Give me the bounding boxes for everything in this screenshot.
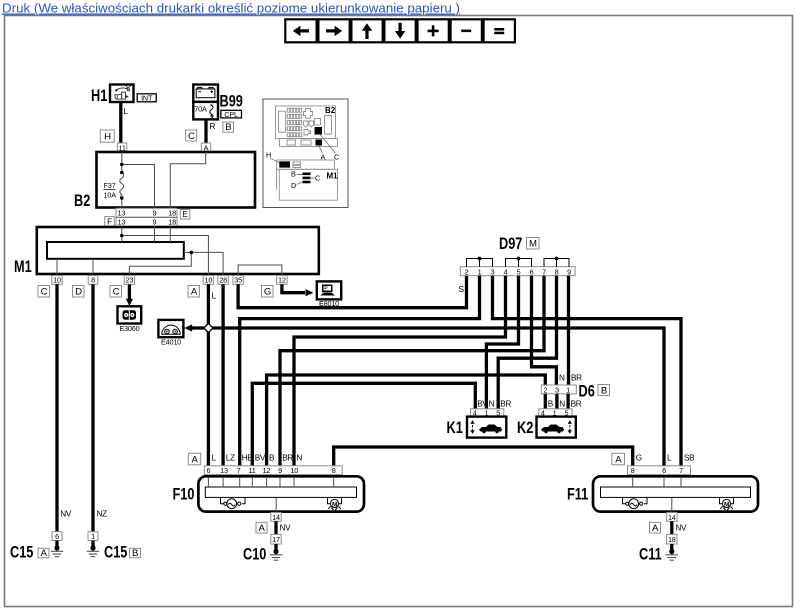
junction dot on M1 internal wire xyxy=(190,251,194,255)
inset fuse grid xyxy=(287,108,301,136)
M1 pin 8 (D) xyxy=(88,276,98,285)
svg-text:S: S xyxy=(459,285,465,294)
leader lines to A and C labels xyxy=(319,135,336,154)
connector D label xyxy=(73,286,85,298)
node: diamond junction on wire L xyxy=(204,323,213,332)
svg-text:F37: F37 xyxy=(104,181,116,190)
svg-text:BV: BV xyxy=(477,400,488,409)
svg-text:M: M xyxy=(332,501,338,508)
svg-text:K1: K1 xyxy=(447,418,463,437)
svg-text:C11: C11 xyxy=(639,545,662,564)
bridge 4-5-6 inside D97 xyxy=(506,259,532,267)
connector A label xyxy=(38,548,49,558)
svg-text:9: 9 xyxy=(153,209,157,218)
svg-text:8: 8 xyxy=(555,267,559,276)
ground C15 B xyxy=(90,545,95,550)
wire D97 pin1 to F10 pin 7 xyxy=(240,276,480,466)
svg-text:6: 6 xyxy=(530,267,534,276)
lamp symbol in F10 xyxy=(221,497,246,508)
svg-text:18: 18 xyxy=(168,218,176,227)
wire D97 pin8 to K1 pin 5 xyxy=(498,276,556,409)
svg-text:14: 14 xyxy=(668,513,676,522)
svg-text:8: 8 xyxy=(91,276,95,285)
svg-text:3: 3 xyxy=(491,267,495,276)
fuse box B2 xyxy=(97,152,256,208)
pin 18 xyxy=(667,534,677,544)
inset module M1 body xyxy=(279,169,337,200)
svg-text:R: R xyxy=(210,122,216,131)
svg-text:8: 8 xyxy=(332,466,336,475)
wire F10 pin8 to F11 pin 8 xyxy=(334,447,633,466)
battery B99 xyxy=(193,85,218,102)
svg-text:G: G xyxy=(264,287,271,298)
svg-text:C: C xyxy=(188,131,195,142)
svg-text:8: 8 xyxy=(631,466,635,475)
svg-text:B: B xyxy=(225,122,231,133)
location inset box xyxy=(263,99,348,208)
inner module rectangle xyxy=(47,242,184,259)
F10 pin row xyxy=(204,466,342,475)
connector A label xyxy=(256,522,267,533)
M1 pin 10 (A) xyxy=(203,276,213,285)
wire: M1 internal to pin 10A xyxy=(122,236,209,276)
svg-text:10A: 10A xyxy=(104,191,117,200)
pin 11 of B2 xyxy=(117,143,126,152)
svg-text:SB: SB xyxy=(684,454,695,463)
wire D97 pin9 to D6 pin 1 xyxy=(567,276,570,385)
svg-text:NV: NV xyxy=(675,524,687,533)
M1 pin 10 (C) xyxy=(52,276,62,285)
svg-text:2: 2 xyxy=(465,267,469,276)
pin A of B2 xyxy=(201,143,210,152)
svg-text:M: M xyxy=(724,501,730,508)
connector F label xyxy=(105,217,115,227)
connector C label xyxy=(110,286,122,298)
wire D97 pin5 to K1 pin 1 xyxy=(486,276,518,409)
svg-text:1: 1 xyxy=(566,386,570,395)
ground C15 A xyxy=(54,545,59,550)
wire M1 pin12 to E8010 xyxy=(282,284,305,292)
svg-text:M1: M1 xyxy=(327,172,339,181)
svg-text:B: B xyxy=(291,170,296,179)
svg-text:13: 13 xyxy=(118,218,126,227)
svg-text:10: 10 xyxy=(53,276,61,285)
inset module M1 top bar xyxy=(277,160,335,169)
svg-text:14: 14 xyxy=(272,513,280,522)
connector rows E/F between B2 and M1 xyxy=(116,208,177,226)
wire BR: D6 pin 1 to K2 pin 5 xyxy=(566,394,569,409)
wire N: D6 pin 3 to K2 pin 1 xyxy=(555,394,558,409)
F10 pin 14 xyxy=(271,513,281,522)
svg-text:N: N xyxy=(559,400,565,409)
INT box xyxy=(137,94,156,102)
svg-text:E3060: E3060 xyxy=(119,324,139,333)
svg-text:1: 1 xyxy=(478,267,482,276)
svg-text:INT: INT xyxy=(141,94,153,103)
wire NZ: M1 pin8D to ground C15 B xyxy=(91,284,94,531)
svg-text:C: C xyxy=(113,287,120,298)
svg-text:BR: BR xyxy=(282,454,293,463)
M1 pin 28 xyxy=(218,276,228,285)
svg-text:B2: B2 xyxy=(74,191,90,210)
svg-text:9: 9 xyxy=(567,267,571,276)
svg-text:G: G xyxy=(636,454,642,463)
svg-text:C15: C15 xyxy=(104,543,127,562)
wire: B2 pin 18 into M1 xyxy=(169,227,171,242)
svg-text:BR: BR xyxy=(571,400,582,409)
pin stubs inside F10 xyxy=(208,478,333,487)
wire B: D6 pin 2 to K2 pin 4 xyxy=(544,394,547,409)
svg-text:C15: C15 xyxy=(10,543,33,562)
svg-text:LZ: LZ xyxy=(226,454,235,463)
wire F10 pin12 to D6 pin 2 xyxy=(267,375,546,466)
connector B label xyxy=(223,122,234,132)
svg-text:D6: D6 xyxy=(579,382,595,401)
svg-text:D: D xyxy=(75,287,82,298)
inset connector bars B C D xyxy=(303,173,311,176)
svg-text:N: N xyxy=(559,374,565,383)
svg-text:H1: H1 xyxy=(91,86,107,105)
svg-text:7: 7 xyxy=(679,466,683,475)
M1 pin 12 xyxy=(277,276,287,285)
svg-text:6: 6 xyxy=(662,466,666,475)
rear lamps module F11 xyxy=(593,476,758,511)
svg-text:N: N xyxy=(296,454,302,463)
diagnostic socket E8010 xyxy=(317,281,341,299)
svg-text:17: 17 xyxy=(272,535,280,544)
svg-text:F: F xyxy=(107,217,112,226)
F11 pin 14 xyxy=(667,513,677,522)
CPL box xyxy=(221,110,242,118)
wire: M1 internal to pin 8D xyxy=(92,259,94,276)
lamp symbol in F11 xyxy=(623,497,648,508)
wire L continues right to F11 pin 6 xyxy=(213,328,664,466)
connector M label xyxy=(527,238,540,250)
pin 1 xyxy=(88,532,98,541)
junction box E3060 xyxy=(118,306,142,323)
svg-text:9: 9 xyxy=(153,218,157,227)
wire: B2 pin 13 into M1 xyxy=(121,227,123,242)
wire S: M1 pin35 right to D97 pin 2 xyxy=(238,276,466,308)
arrow from node to E4010 xyxy=(188,326,204,329)
ground C11 xyxy=(669,549,674,554)
svg-text:35: 35 xyxy=(234,276,242,285)
svg-text:7: 7 xyxy=(237,466,241,475)
svg-text:3: 3 xyxy=(555,386,559,395)
svg-text:13: 13 xyxy=(118,209,126,218)
svg-text:NV: NV xyxy=(60,510,72,519)
connector E label xyxy=(180,210,190,220)
connector A label xyxy=(612,453,625,465)
bridge 2-1-3 inside D97 xyxy=(467,259,493,267)
svg-text:28: 28 xyxy=(219,276,227,285)
wire: M1 internal to pin 28 xyxy=(184,252,223,275)
svg-text:C10: C10 xyxy=(243,545,266,564)
M1 pin 23 xyxy=(124,276,134,285)
pin 6 xyxy=(52,532,62,541)
body computer M1 xyxy=(37,227,319,274)
connector B label xyxy=(130,548,141,558)
svg-text:E: E xyxy=(182,210,188,219)
svg-text:C: C xyxy=(41,287,48,298)
heater plug H1 xyxy=(110,85,134,103)
ground C10 xyxy=(273,549,278,554)
wire: M1 internal bridge pin 35 to pin 12 xyxy=(238,265,282,276)
wire D97 pin7 to F10 pin 9 xyxy=(280,276,544,466)
wire D97 pin6 to D6 pin 3 xyxy=(532,276,557,385)
svg-text:M: M xyxy=(529,239,537,250)
svg-text:1: 1 xyxy=(91,532,95,541)
connector B label xyxy=(598,385,610,396)
svg-text:Druk (We właściwościach drukar: Druk (We właściwościach drukarki określi… xyxy=(2,1,460,16)
wire: M1 internal to pin 10C xyxy=(56,259,58,276)
svg-text:E4010: E4010 xyxy=(161,338,181,347)
connector C label xyxy=(38,286,50,298)
connector A label xyxy=(188,286,200,298)
bridge 7-8-9 inside D97 xyxy=(544,259,569,267)
wire D97 pin4 to F10 pin 10 xyxy=(294,276,506,466)
wire R from B99 to B2 pin A xyxy=(204,119,207,143)
svg-text:BR: BR xyxy=(571,374,582,383)
connector G label xyxy=(262,286,274,298)
connector A label xyxy=(650,522,661,533)
svg-text:H: H xyxy=(104,132,111,143)
svg-text:B99: B99 xyxy=(220,92,243,111)
wire F10 pin11 to K1 pin 4 xyxy=(252,383,475,466)
toolbar buttons xyxy=(285,19,515,42)
svg-text:F10: F10 xyxy=(173,485,195,504)
svg-text:N: N xyxy=(489,400,495,409)
wire: M1 internal to pin 23 xyxy=(129,252,191,275)
inset connector A (black) xyxy=(316,140,323,146)
svg-text:BV: BV xyxy=(255,454,266,463)
front lamps module F10 xyxy=(198,476,364,511)
svg-text:11: 11 xyxy=(248,466,255,475)
F11 pin row xyxy=(628,466,691,475)
inner bar F10 xyxy=(205,487,356,497)
pin 17 xyxy=(271,534,281,544)
svg-text:B2: B2 xyxy=(325,106,336,115)
svg-text:BR: BR xyxy=(500,400,511,409)
internal wire from pin 11 with fuse F37 xyxy=(120,152,206,208)
svg-text:NV: NV xyxy=(280,524,292,533)
svg-text:4: 4 xyxy=(504,267,508,276)
motor symbol in F10 xyxy=(328,497,342,510)
svg-text:10: 10 xyxy=(205,276,213,285)
inset connector C (black) xyxy=(315,127,323,135)
wire: B2 pin 9 into M1 xyxy=(154,227,156,242)
wire NV: M1 pin10C to ground C15 A xyxy=(55,284,58,531)
connector H label xyxy=(100,130,114,142)
svg-text:6: 6 xyxy=(55,532,59,541)
svg-text:B: B xyxy=(132,548,138,559)
wire NV to ground C10 xyxy=(274,521,277,534)
svg-text:F11: F11 xyxy=(567,485,588,504)
wire NV to ground C11 xyxy=(670,521,673,534)
wire L from H1 to B2 pin 11 xyxy=(119,102,122,143)
svg-text:13: 13 xyxy=(220,466,228,475)
motor symbol in F11 xyxy=(720,497,734,510)
svg-text:K2: K2 xyxy=(517,418,533,437)
svg-text:18: 18 xyxy=(168,209,176,218)
svg-text:B: B xyxy=(548,400,554,409)
svg-text:D: D xyxy=(291,181,296,190)
pin stubs inside F11 xyxy=(633,478,681,487)
inset fuse box B2 outline xyxy=(276,106,338,147)
svg-text:18: 18 xyxy=(668,535,676,544)
wire M1 pin28 down to F10 pin 13 xyxy=(221,284,224,466)
svg-text:B: B xyxy=(601,385,607,396)
svg-text:D97: D97 xyxy=(499,234,522,253)
svg-text:9: 9 xyxy=(278,466,282,475)
inner bar F11 xyxy=(601,487,751,497)
internal wire to pin 14 xyxy=(671,497,673,512)
wire M1 pin23 to E3060 xyxy=(128,284,131,301)
svg-text:NZ: NZ xyxy=(97,510,108,519)
svg-text:5: 5 xyxy=(517,267,521,276)
wire L: M1 pin10A down to F10 pin 6 xyxy=(207,284,210,466)
M1 pin 35 xyxy=(233,276,243,285)
svg-text:6: 6 xyxy=(206,466,210,475)
wire D97 pin3 to F11 pin 7 xyxy=(493,276,682,466)
svg-text:2: 2 xyxy=(543,386,547,395)
svg-text:CPL: CPL xyxy=(224,110,238,119)
svg-text:C: C xyxy=(315,174,320,183)
internal wire to pin 14 xyxy=(275,497,277,512)
svg-text:12: 12 xyxy=(262,466,270,475)
junction dot on M1 internal wire xyxy=(120,234,124,238)
svg-text:12: 12 xyxy=(278,276,286,285)
svg-text:10: 10 xyxy=(290,466,298,475)
svg-text:23: 23 xyxy=(126,276,134,285)
connector C label xyxy=(186,130,197,141)
svg-text:7: 7 xyxy=(542,267,546,276)
svg-text:M1: M1 xyxy=(14,257,32,276)
svg-text:H: H xyxy=(266,151,271,160)
svg-text:70A: 70A xyxy=(194,105,207,114)
svg-text:B: B xyxy=(269,454,275,463)
connector A label xyxy=(188,453,200,465)
junction E4010 xyxy=(158,320,183,337)
svg-text:HB: HB xyxy=(242,454,254,463)
